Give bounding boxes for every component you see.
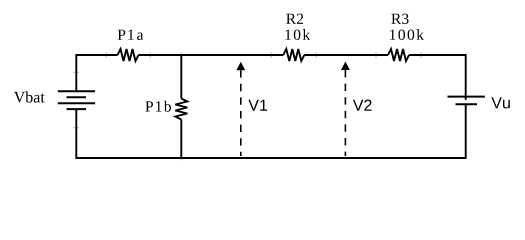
junction tick P1b bottom [180,159,182,161]
value 100k [390,29,424,40]
wire node A down to P1b [180,54,182,98]
battery Vbat plate 4 short [67,108,87,110]
label P1a [118,30,144,40]
label R3 [391,14,408,25]
label V2 [353,100,372,111]
wire P1a to node A [139,54,284,56]
label V1 [248,100,267,111]
wire battery negative to bottom-left corner [75,109,77,159]
battery Vbat plate 2 short [67,96,87,98]
resistor R2 [283,49,304,61]
battery Vu plate short [456,103,478,105]
pin tick R2 left [270,53,272,58]
label R2 [286,14,303,24]
wire bottom net [76,157,465,159]
wire node B: R2 to R3 [304,54,388,56]
resistor P1a [118,49,139,61]
pin tick R2 right [315,53,317,58]
pin tick Vbat top [74,71,79,73]
value 10k [285,29,310,40]
wire R3 to top-right corner [409,54,466,56]
resistor R3 [388,49,409,61]
pin tick P1a right [149,53,151,58]
wire left vertical: top corner down to battery [75,54,77,91]
wire top net: battery positive to P1a [76,54,117,56]
resistor P1b [175,99,187,120]
label Vbat [14,91,45,102]
junction tick node A [180,53,182,55]
battery Vbat plate 1 long [58,90,95,92]
wire P1b to bottom net [180,120,182,159]
battery Vu plate long [448,96,485,98]
arrow V2 dashed shaft [344,70,346,156]
pin tick P1a left [105,53,107,58]
wire Vu to bottom-right corner [465,104,467,159]
wire right vertical: top corner down to Vu [465,54,467,100]
label P1b [145,101,171,112]
arrow V1 dashed shaft [240,70,242,156]
battery Vbat plate 3 long [58,102,95,104]
arrow V2 head [341,62,350,71]
arrow V1 head [236,62,245,70]
label Vu [491,97,509,108]
pin tick R3 left [375,53,377,58]
pin tick Vbat bottom [74,127,79,129]
pin tick R3 right [420,53,422,58]
